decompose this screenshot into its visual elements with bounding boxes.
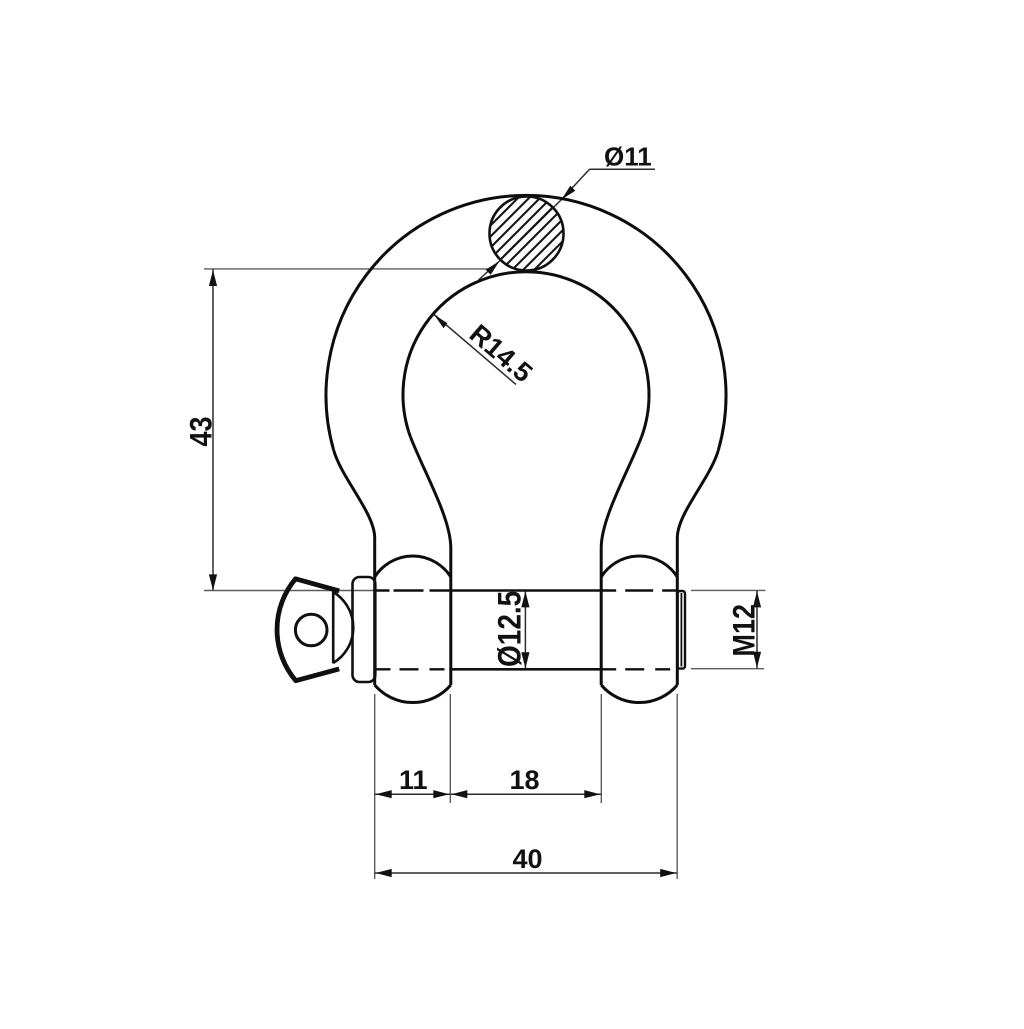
svg-text:18: 18 xyxy=(510,765,540,795)
svg-text:43: 43 xyxy=(185,416,219,446)
svg-text:Ø11: Ø11 xyxy=(604,142,652,172)
svg-text:Ø12.5: Ø12.5 xyxy=(493,591,528,667)
svg-text:M12: M12 xyxy=(728,604,762,657)
svg-text:11: 11 xyxy=(399,765,428,795)
svg-text:40: 40 xyxy=(513,844,543,874)
